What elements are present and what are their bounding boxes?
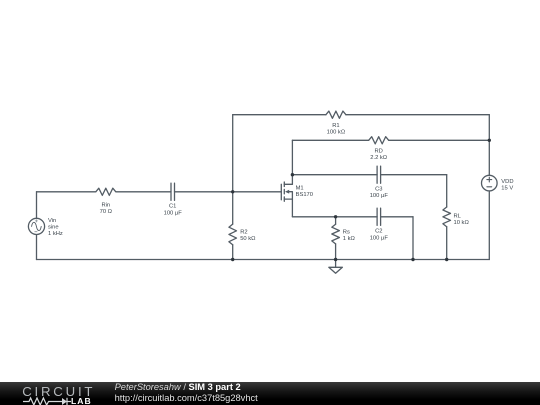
svg-text:1 kΩ: 1 kΩ xyxy=(343,236,356,242)
svg-text:R2: R2 xyxy=(240,230,247,236)
svg-text:Rs: Rs xyxy=(343,229,350,235)
voltage source VDD xyxy=(482,175,514,191)
footer url text xyxy=(115,393,258,403)
wire: C3 output rail y=174.7 xyxy=(292,174,446,176)
footer title text xyxy=(115,382,241,392)
wire: source/C2 rail y=216.8 xyxy=(292,216,413,218)
svg-text:BS170: BS170 xyxy=(296,192,313,198)
svg-text:100 kΩ: 100 kΩ xyxy=(327,130,346,136)
wire: vertical gate/R2 branch x=232.7 xyxy=(232,115,234,260)
wire: Rs branch x=335.6 xyxy=(335,217,337,260)
wire: RL branch x=446.7 xyxy=(446,175,448,260)
svg-text:70 Ω: 70 Ω xyxy=(100,209,113,215)
logo CIRCUIT xyxy=(22,384,95,399)
svg-text:sine: sine xyxy=(48,225,59,231)
wire: source vertical x=292.4 xyxy=(291,199,293,217)
node: drain/C3 junction xyxy=(291,173,294,176)
svg-text:C3: C3 xyxy=(375,187,382,193)
capacitor C1 xyxy=(164,183,183,216)
resistor R2 xyxy=(229,224,256,245)
svg-text:50 kΩ: 50 kΩ xyxy=(240,236,256,242)
svg-text:R1: R1 xyxy=(332,123,339,129)
svg-text:RD: RD xyxy=(375,148,383,154)
node: RD/VDD junction xyxy=(488,139,491,142)
wire: bottom ground rail y=259.5 xyxy=(37,259,490,261)
svg-text:100 µF: 100 µF xyxy=(164,210,183,216)
ground xyxy=(329,260,343,274)
logo schematic glyph xyxy=(22,396,74,405)
svg-text:10 kΩ: 10 kΩ xyxy=(454,220,470,226)
svg-text:1 kHz: 1 kHz xyxy=(48,231,63,237)
wire: drain rail y=140.3 xyxy=(292,139,489,141)
footer bar xyxy=(0,382,540,405)
voltage source Vin xyxy=(28,218,63,237)
node: RL/bottom junction xyxy=(445,258,448,261)
node: source/Rs junction xyxy=(334,215,337,218)
svg-text:M1: M1 xyxy=(296,186,304,192)
svg-text:15 V: 15 V xyxy=(501,186,513,192)
svg-text:2.2 kΩ: 2.2 kΩ xyxy=(370,155,388,161)
wire: top feedback rail y=114.7 xyxy=(233,114,490,116)
resistor Rin xyxy=(96,188,116,215)
svg-text:C2: C2 xyxy=(375,229,382,235)
svg-text:Rin: Rin xyxy=(101,203,110,209)
svg-text:Vin: Vin xyxy=(48,218,56,224)
resistor RL xyxy=(443,207,470,227)
capacitor C3 xyxy=(370,166,389,199)
wire: Vin verticals x=36.5 xyxy=(36,192,38,260)
node: C2-drop/bottom junction xyxy=(411,258,414,261)
transistor M1 (BS170 NMOS) xyxy=(281,182,313,201)
svg-text:100 µF: 100 µF xyxy=(370,235,389,241)
wire: drain vertical x=292.4 xyxy=(291,140,293,184)
svg-text:RL: RL xyxy=(454,214,462,220)
wire: VDD vertical x=489.3 xyxy=(488,115,490,260)
node: R2/bottom junction xyxy=(231,258,234,261)
svg-text:VDD: VDD xyxy=(501,179,513,185)
resistor RD xyxy=(369,137,389,161)
node: gate/R2 junction xyxy=(231,190,234,193)
capacitor C2 xyxy=(370,208,389,241)
resistor Rs xyxy=(332,224,356,244)
wire: C2 output drop x=413 xyxy=(412,217,414,260)
resistor R1 xyxy=(326,111,346,135)
svg-text:100 µF: 100 µF xyxy=(370,193,389,199)
wire: input/gate rail y=191.8 xyxy=(37,191,282,193)
svg-text:C1: C1 xyxy=(169,204,176,210)
node: Rs/ground junction xyxy=(334,258,337,261)
logo LAB xyxy=(71,396,92,405)
